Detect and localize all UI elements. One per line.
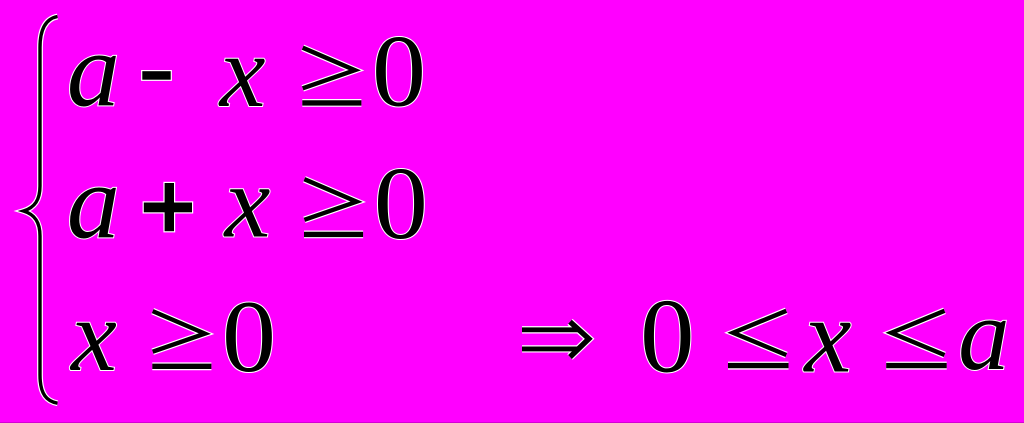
implies double arrow: [522, 322, 589, 357]
greater-or-equal (row 2): [304, 179, 363, 234]
minus sign (row 1): [141, 70, 172, 81]
svg-text:x: x: [69, 279, 117, 393]
svg-text:0: 0: [372, 15, 426, 129]
svg-text:0: 0: [640, 277, 695, 394]
less-or-equal (second): [886, 311, 947, 366]
svg-text:0: 0: [222, 280, 276, 394]
svg-text:x: x: [802, 277, 851, 394]
plus sign (row 2): [143, 182, 194, 233]
svg-text:0: 0: [374, 146, 428, 261]
greater-or-equal (row 3): [152, 311, 211, 366]
svg-text:x: x: [223, 145, 271, 259]
svg-text:a: a: [67, 144, 120, 261]
greater-or-equal (row 1): [302, 48, 361, 103]
svg-text:x: x: [218, 15, 266, 129]
left system brace {: [24, 17, 58, 404]
svg-text:a: a: [67, 12, 120, 129]
bottom edge artifact line: [0, 422, 1024, 423]
svg-text:a: a: [958, 278, 1010, 392]
less-or-equal (first): [728, 311, 789, 366]
